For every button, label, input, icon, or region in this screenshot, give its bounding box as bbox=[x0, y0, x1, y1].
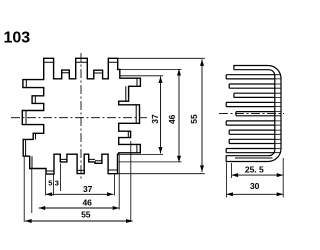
svg-text:5: 5 bbox=[48, 178, 52, 187]
svg-text:46: 46 bbox=[82, 197, 92, 207]
svg-text:46: 46 bbox=[167, 114, 177, 124]
svg-text:55: 55 bbox=[189, 114, 199, 124]
svg-text:3: 3 bbox=[55, 178, 59, 187]
svg-text:103: 103 bbox=[4, 29, 31, 46]
svg-text:55: 55 bbox=[81, 209, 91, 219]
svg-text:30: 30 bbox=[250, 181, 260, 191]
svg-text:37: 37 bbox=[83, 184, 93, 194]
svg-text:37: 37 bbox=[150, 114, 160, 124]
svg-text:25. 5: 25. 5 bbox=[245, 165, 264, 175]
